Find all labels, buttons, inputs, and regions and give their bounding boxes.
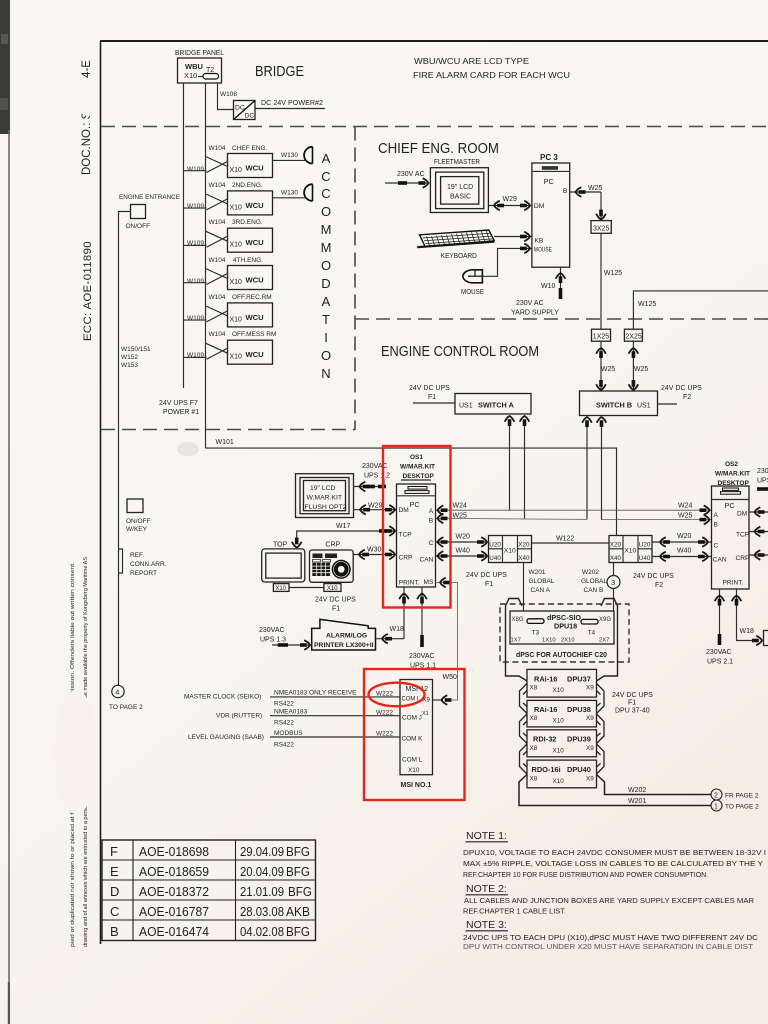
svg-text:UPS 2.1: UPS 2.1: [707, 659, 733, 666]
dashed border chief eng room bottom: [355, 318, 768, 320]
svg-text:B: B: [563, 188, 568, 195]
svg-text:PRINT.: PRINT.: [399, 580, 420, 587]
svg-text:ON/OFF: ON/OFF: [126, 223, 151, 230]
cable W25 from PC3 B: [570, 191, 601, 193]
svg-text:RDI-32: RDI-32: [533, 735, 556, 744]
svg-text:TCP: TCP: [399, 532, 413, 539]
svg-text:1: 1: [714, 804, 718, 811]
svg-text:X8: X8: [530, 775, 538, 782]
red annotation rect around MSI: [364, 669, 465, 800]
svg-text:REPORT: REPORT: [130, 570, 157, 577]
svg-text:NOTE 3:: NOTE 3:: [466, 919, 507, 931]
cable W29 LCD to OS1 DM: [354, 509, 397, 511]
CRP X10 tag: [324, 584, 341, 592]
svg-text:PRINT.: PRINT.: [723, 580, 744, 587]
svg-text:DC: DC: [235, 105, 245, 112]
engine entrance on/off box: [131, 205, 146, 219]
fuse 2X25: [624, 329, 642, 341]
speaker 2 with wire W130: [273, 184, 313, 201]
svg-text:W109: W109: [187, 278, 204, 285]
svg-text:MODBUS: MODBUS: [274, 730, 303, 737]
TOP X10 tag: [273, 584, 289, 592]
net W122 between junctions: [532, 542, 610, 544]
cable W24 OS2 A hook: [700, 505, 710, 515]
cable W30 CRP to OS1 CRP: [353, 554, 396, 556]
svg-text:TOP: TOP: [273, 542, 288, 549]
svg-text:W130: W130: [281, 152, 298, 159]
bus links between DPU modules right: [597, 684, 605, 714]
module RAI-16 DPU37: [527, 669, 597, 697]
svg-text:C: C: [714, 542, 719, 549]
dPSC dashed enclosure: [500, 604, 629, 662]
svg-text:X10: X10: [230, 167, 243, 174]
svg-text:X10: X10: [408, 767, 420, 774]
svg-text:W25: W25: [601, 366, 616, 373]
svg-text:RAi-16: RAi-16: [534, 675, 557, 684]
svg-text:ON/OFF: ON/OFF: [126, 518, 151, 525]
svg-text:W153: W153: [121, 362, 138, 369]
svg-text:PC: PC: [410, 500, 420, 509]
wire W202 to page 2: [597, 775, 712, 795]
svg-text:2: 2: [714, 793, 718, 800]
cable W17 TOP to OS1 TCP: [297, 531, 397, 540]
on/off w/key box: [127, 499, 143, 513]
cable W29 monitor to PC3: [488, 205, 531, 207]
svg-text:FR PAGE 2: FR PAGE 2: [725, 793, 759, 800]
svg-text:W101: W101: [216, 439, 234, 446]
svg-text:4TH.ENG.: 4TH.ENG.: [233, 257, 263, 264]
svg-text:W222: W222: [376, 691, 393, 698]
svg-text:SWITCH A: SWITCH A: [478, 401, 515, 410]
svg-text:DM: DM: [534, 203, 545, 210]
svg-text:W40: W40: [456, 548, 471, 555]
svg-text:3RD.ENG.: 3RD.ENG.: [232, 219, 263, 226]
PC3 computer box: [532, 163, 570, 267]
red annotation rect around OS1: [383, 446, 451, 608]
ethernet switch B: [580, 391, 658, 416]
wire W10 yard supply: [560, 267, 562, 288]
DC/DC converter: [234, 101, 256, 120]
svg-text:BRIDGE: BRIDGE: [255, 63, 304, 80]
svg-text:REF.CHAPTER 1 CABLE LIST.: REF.CHAPTER 1 CABLE LIST.: [463, 909, 566, 916]
svg-text:CONN.ARR.: CONN.ARR.: [130, 561, 167, 568]
svg-text:T4: T4: [588, 630, 596, 637]
svg-text:W150/151: W150/151: [121, 346, 151, 353]
wire W125 branch right: [633, 291, 768, 329]
svg-text:X10: X10: [230, 242, 243, 249]
svg-text:F1: F1: [485, 581, 493, 588]
svg-text:F1: F1: [628, 700, 636, 707]
svg-text:AOE-016474: AOE-016474: [139, 924, 209, 939]
svg-text:W24: W24: [678, 503, 693, 510]
dashed border below bridge: [101, 126, 768, 128]
monitor 19" LCD BASIC: [430, 168, 488, 213]
svg-text:W29: W29: [368, 503, 383, 510]
svg-text:F1: F1: [428, 394, 436, 401]
module dPSC-SIO DPU18: [510, 611, 614, 644]
section title ACCOMMODATION (vertical): [321, 151, 332, 381]
svg-text:A: A: [322, 151, 331, 166]
svg-text:A: A: [429, 508, 434, 515]
wire to switch A: [413, 402, 455, 404]
drawing frame top border: [100, 40, 768, 42]
svg-text:X9: X9: [586, 745, 594, 752]
svg-text:C: C: [110, 904, 119, 919]
svg-text:X9: X9: [586, 775, 594, 782]
junction box X10 no.1: [489, 536, 532, 563]
svg-text:UPS 1.2: UPS 1.2: [364, 473, 390, 480]
svg-text:N: N: [321, 366, 330, 381]
svg-text:24V DC UPS: 24V DC UPS: [661, 385, 702, 392]
node 1 TO PAGE 2: [711, 800, 722, 811]
labels W150/151 W152 W153: [121, 346, 151, 369]
svg-text:CHEF ENG.: CHEF ENG.: [232, 145, 268, 152]
svg-text:ALL CABLES AND JUNCTION BOXES: ALL CABLES AND JUNCTION BOXES ARE YARD S…: [464, 898, 754, 905]
WCU box chief eng: [184, 154, 273, 178]
svg-text:CRP: CRP: [736, 555, 751, 562]
junction box X10 no.2: [609, 536, 652, 563]
svg-text:W201: W201: [529, 569, 546, 576]
svg-text:X10: X10: [230, 204, 243, 211]
svg-text:DOC.NO.: S: DOC.NO.: S: [81, 111, 93, 175]
svg-text:UPS: UPS: [757, 478, 768, 485]
svg-text:24V UPS F7: 24V UPS F7: [159, 400, 198, 407]
svg-text:RS422: RS422: [274, 742, 294, 749]
svg-text:CRP: CRP: [325, 542, 340, 549]
wire 230V into monitor: [385, 182, 429, 184]
wire W201 to page 2: [519, 775, 711, 806]
wire master clock line: [270, 696, 400, 698]
svg-text:X40: X40: [518, 555, 530, 562]
svg-text:OS2: OS2: [725, 461, 738, 468]
svg-text:COM J: COM J: [402, 714, 422, 721]
svg-text:RS422: RS422: [274, 720, 294, 727]
svg-text:DC 24V POWER#2: DC 24V POWER#2: [261, 100, 323, 107]
svg-text:U20: U20: [639, 542, 651, 549]
svg-text:24V DC UPS: 24V DC UPS: [409, 385, 450, 392]
svg-text:DPUX10, VOLTAGE TO EACH 24VDC: DPUX10, VOLTAGE TO EACH 24VDC CONSUMER M…: [463, 850, 766, 857]
svg-text:MOUSE: MOUSE: [534, 246, 552, 253]
svg-text:X10: X10: [184, 71, 197, 80]
svg-text:DPU WITH CONTROL UNDER X20: DPU WITH CONTROL UNDER X20 MUST HAVE SEP…: [463, 944, 754, 951]
svg-text:2X7: 2X7: [599, 638, 609, 644]
svg-text:B: B: [110, 924, 119, 939]
svg-text:E: E: [110, 864, 119, 879]
svg-text:F: F: [110, 844, 118, 859]
svg-text:WBU/WCU ARE LCD TYPE: WBU/WCU ARE LCD TYPE: [414, 56, 529, 66]
svg-text:X10: X10: [230, 316, 243, 323]
cable W24 OS1 A hook: [438, 505, 448, 515]
svg-text:24V DC UPS: 24V DC UPS: [612, 692, 653, 699]
svg-text:04.02.08: 04.02.08: [240, 924, 284, 939]
cable W25 OS2 B hook: [700, 515, 710, 525]
WCU box off rec rm: [184, 303, 273, 327]
svg-text:W29: W29: [503, 196, 518, 203]
cable OS2 CRP (cut): [749, 554, 768, 556]
node 4 to page 2: [109, 685, 143, 711]
wire OS1 MS supply down: [421, 587, 423, 636]
svg-text:MSI NO.1: MSI NO.1: [401, 782, 432, 789]
svg-text:W40: W40: [677, 548, 692, 555]
wire W125 down: [600, 233, 602, 329]
svg-text:W18: W18: [390, 626, 405, 633]
wire vdr line: [270, 715, 400, 717]
white blob on DOC.NO.: [77, 84, 99, 116]
svg-text:U40: U40: [639, 555, 651, 562]
svg-text:230V AC: 230V AC: [397, 171, 425, 178]
svg-text:OFF.REC.RM: OFF.REC.RM: [232, 294, 272, 301]
svg-text:X10: X10: [553, 718, 565, 725]
svg-text:WCU: WCU: [246, 201, 265, 210]
svg-text:ENGINE ENTRANCE: ENGINE ENTRANCE: [119, 194, 181, 201]
svg-text:AKB: AKB: [286, 904, 310, 919]
svg-text:W/MAR.KIT: W/MAR.KIT: [715, 471, 750, 478]
svg-text:X9: X9: [586, 685, 594, 692]
svg-text:PRINTER LX300+II: PRINTER LX300+II: [314, 642, 374, 649]
svg-text:C: C: [321, 186, 330, 201]
svg-text:C: C: [429, 540, 434, 547]
serial interface MSI box: [400, 680, 433, 775]
keyboard: [417, 230, 494, 247]
dPSC outer boundary with notches: [506, 599, 528, 682]
monitor TOP: [262, 542, 305, 583]
svg-text:2X25: 2X25: [625, 334, 641, 341]
smudge near W101: [177, 442, 199, 456]
svg-text:W152: W152: [121, 354, 138, 361]
svg-text:X10: X10: [553, 778, 565, 785]
svg-text:230VAC: 230VAC: [409, 653, 435, 660]
mouse: [463, 270, 482, 283]
svg-text:W125: W125: [604, 270, 622, 277]
svg-text:1X25: 1X25: [593, 334, 609, 341]
svg-text:COM I: COM I: [402, 696, 419, 703]
svg-text:X8: X8: [530, 715, 538, 722]
svg-text:1X10: 1X10: [542, 638, 556, 644]
svg-text:BASIC: BASIC: [450, 194, 471, 201]
svg-text:W17: W17: [336, 523, 351, 530]
svg-text:PC: PC: [725, 501, 735, 510]
svg-text:W20: W20: [677, 533, 692, 540]
wire switch B port 2 down: [601, 422, 603, 520]
svg-text:DM: DM: [737, 511, 747, 518]
svg-text:X10: X10: [230, 354, 243, 361]
svg-text:X9G: X9G: [599, 617, 611, 623]
svg-text:2ND.ENG.: 2ND.ENG.: [232, 182, 263, 189]
ethernet switch A: [455, 394, 531, 415]
svg-text:DESKTOP: DESKTOP: [403, 473, 435, 480]
svg-text:WCU: WCU: [246, 164, 265, 173]
wire engine entrance down: [119, 212, 131, 687]
wire level gauging line: [270, 736, 400, 738]
red annotation ellipse around W222 COM I: [369, 683, 425, 707]
svg-text:W104: W104: [209, 331, 226, 338]
svg-text:O: O: [321, 258, 331, 273]
svg-text:F2: F2: [683, 394, 691, 401]
svg-text:1X7: 1X7: [511, 638, 521, 644]
wire 1X25 to switch B: [600, 341, 602, 391]
svg-text:X10: X10: [275, 586, 286, 592]
net W25 line B segment 2: [602, 519, 712, 521]
svg-text:W25: W25: [588, 185, 603, 192]
svg-text:W104: W104: [209, 182, 226, 189]
panel CRP: [310, 542, 354, 583]
scan left edge dark strip: [0, 0, 10, 134]
svg-text:W50: W50: [443, 674, 458, 681]
svg-text:230VAC: 230VAC: [706, 649, 732, 656]
cable OS2 TCP (cut): [749, 531, 768, 533]
svg-text:GLOBAL: GLOBAL: [529, 578, 555, 585]
cable W40 junction2 to OS2 CAN: [652, 556, 712, 558]
svg-text:W.MAR.KIT: W.MAR.KIT: [307, 495, 343, 502]
wire between X10 tags: [289, 587, 324, 589]
accommodation WCU column: [102, 145, 768, 951]
svg-text:NMEA0183 ONLY RECEIVE: NMEA0183 ONLY RECEIVE: [274, 690, 357, 697]
wire switch A port 1 down: [509, 421, 511, 510]
wire T2 bus 1 down: [205, 83, 207, 448]
svg-text:28.03.08: 28.03.08: [240, 904, 284, 919]
svg-text:W20: W20: [456, 534, 471, 541]
svg-text:W18: W18: [740, 628, 755, 635]
svg-text:19" LCD: 19" LCD: [447, 184, 473, 191]
svg-text:PC: PC: [544, 177, 554, 186]
svg-text:X8: X8: [530, 685, 538, 692]
svg-text:TCP: TCP: [736, 532, 750, 539]
svg-text:DPU18: DPU18: [554, 622, 577, 631]
svg-text:NMEA0183: NMEA0183: [274, 709, 308, 716]
svg-text:24V DC UPS: 24V DC UPS: [633, 573, 674, 580]
svg-text:X40: X40: [610, 555, 622, 562]
bus links between DPU modules left: [520, 684, 528, 714]
svg-text:OS1: OS1: [410, 454, 423, 461]
svg-text:4: 4: [115, 688, 119, 697]
labels W104 + room names: [187, 145, 276, 359]
svg-text:OFF.MESS RM: OFF.MESS RM: [232, 331, 276, 338]
wire W202 global can B down: [613, 563, 615, 576]
svg-text:X10: X10: [230, 279, 243, 286]
workstation OS1 box: [397, 484, 436, 587]
svg-text:CAN A: CAN A: [531, 587, 551, 594]
svg-text:W222: W222: [376, 731, 393, 738]
ref conn arr report bracket: [119, 549, 123, 573]
svg-text:WBU: WBU: [185, 62, 203, 71]
svg-text:X10: X10: [553, 687, 565, 694]
wire W201 global can A down: [523, 563, 525, 612]
svg-text:WCU: WCU: [246, 313, 265, 322]
svg-text:B: B: [429, 518, 434, 525]
svg-text:RDO-16i: RDO-16i: [532, 765, 561, 774]
svg-text:W222: W222: [376, 709, 393, 716]
svg-text:M: M: [321, 222, 332, 237]
net W24 line A: [436, 509, 712, 511]
module RAI-16 DPU38: [527, 700, 597, 727]
svg-text:ALARM/LOG: ALARM/LOG: [326, 633, 367, 640]
svg-text:T3: T3: [532, 630, 540, 637]
X9 stub and W50 hook: [433, 699, 444, 701]
svg-text:W10: W10: [541, 283, 556, 290]
svg-text:X8: X8: [530, 745, 538, 752]
WCU box 4th eng: [184, 266, 273, 290]
wire 2X25 to switch B: [632, 341, 634, 391]
wire switch A port 2 down: [524, 421, 526, 518]
svg-text:BFG: BFG: [286, 924, 310, 939]
svg-text:20.04.09: 20.04.09: [240, 864, 284, 879]
white blob over fine print: [54, 690, 98, 814]
svg-text:DPU 37-40: DPU 37-40: [615, 708, 650, 715]
svg-text:CAN: CAN: [713, 557, 727, 564]
svg-text:W25: W25: [634, 366, 649, 373]
revision table: [102, 840, 316, 941]
svg-text:US1: US1: [459, 403, 473, 410]
svg-text:DC: DC: [245, 113, 255, 120]
svg-text:230V AC: 230V AC: [516, 300, 544, 307]
svg-text:FIRE ALARM CARD FOR EACH WCU: FIRE ALARM CARD FOR EACH WCU: [413, 70, 570, 80]
svg-text:W30: W30: [367, 547, 382, 554]
svg-text:RAi-16: RAi-16: [534, 705, 557, 714]
svg-text:AOE-018698: AOE-018698: [139, 844, 209, 859]
svg-text:U20: U20: [489, 542, 501, 549]
svg-text:VDR (RUTTER): VDR (RUTTER): [216, 712, 262, 719]
svg-text:CAN B: CAN B: [584, 587, 604, 594]
svg-text:CRP: CRP: [399, 555, 414, 562]
svg-text:U40: U40: [489, 555, 501, 562]
wire from switch B right: [658, 403, 678, 405]
module RDO-16i DPU40: [527, 760, 597, 788]
svg-text:KB: KB: [534, 237, 544, 244]
svg-text:W109: W109: [187, 315, 204, 322]
svg-text:BFG: BFG: [286, 864, 310, 879]
svg-text:GLOBAL: GLOBAL: [581, 578, 607, 585]
svg-text:24V DC UPS: 24V DC UPS: [315, 597, 356, 604]
svg-text:W202: W202: [628, 787, 646, 794]
svg-text:MASTER CLOCK (SEIKO): MASTER CLOCK (SEIKO): [184, 694, 261, 701]
cable W50 OS1 MS to MSI: [436, 583, 458, 701]
supply wire into LCD: [354, 479, 385, 487]
dashed border accommodation bottom: [101, 429, 355, 431]
svg-text:W202: W202: [582, 569, 599, 576]
bridge panel WBU X10 box: [178, 58, 222, 83]
supply wire into printer: [272, 644, 312, 646]
svg-text:O: O: [321, 348, 331, 363]
WCU box 3rd eng: [184, 228, 273, 252]
svg-text:W104: W104: [209, 219, 226, 226]
svg-text:W104: W104: [209, 257, 226, 264]
svg-text:A: A: [714, 512, 719, 519]
wire W108 from panel to DC/DC: [218, 83, 234, 110]
cable W40 OS1 CAN to junction: [436, 555, 489, 557]
svg-text:AOE-018372: AOE-018372: [139, 884, 209, 899]
svg-text:21.01.09: 21.01.09: [240, 884, 284, 899]
svg-text:4-E: 4-E: [81, 60, 93, 78]
svg-text:REF.: REF.: [130, 552, 144, 559]
svg-text:BFG: BFG: [286, 844, 310, 859]
svg-text:A: A: [322, 294, 331, 309]
svg-text:F2: F2: [655, 582, 663, 589]
svg-text:FLEETMASTER: FLEETMASTER: [434, 159, 480, 166]
svg-text:FLUSH OPT2: FLUSH OPT2: [305, 504, 347, 511]
svg-text:NOTE 2:: NOTE 2:: [466, 883, 507, 895]
svg-text:X10: X10: [327, 586, 338, 592]
svg-text:3: 3: [611, 578, 615, 587]
svg-text:ECC: AOE-011890: ECC: AOE-011890: [82, 241, 94, 341]
svg-text:COM L: COM L: [402, 757, 423, 764]
svg-text:F1: F1: [332, 606, 340, 613]
node 2 FR PAGE 2: [711, 789, 722, 800]
svg-text:DPU40: DPU40: [567, 765, 591, 774]
svg-text:24V DC UPS: 24V DC UPS: [466, 572, 507, 579]
svg-text:W25: W25: [453, 513, 468, 520]
wire OS2 printer W18: [737, 589, 756, 641]
wire down to fuse 3X25: [600, 192, 602, 221]
